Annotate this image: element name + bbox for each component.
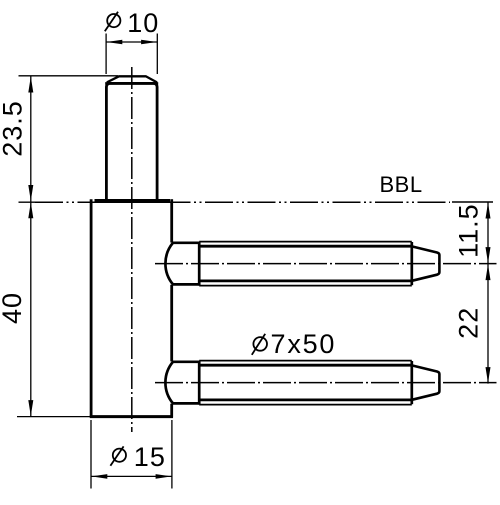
40 bottom arrow <box>28 400 33 416</box>
dia15 right extension line <box>171 420 173 489</box>
upper screw thread crest bottom (thin) <box>199 285 412 287</box>
upper screw core bottom (thick) <box>199 279 412 282</box>
svg-text:22: 22 <box>454 307 484 339</box>
body shoulder <box>95 199 171 202</box>
right dimension line (11.5 and 22) <box>487 202 489 384</box>
dia10 left extension line <box>105 34 107 75</box>
23.5 bottom arrow <box>28 185 33 201</box>
lower screw thread end line <box>410 361 413 404</box>
lower screw thread crest bottom (thin) <box>199 404 412 406</box>
upper screw collar <box>165 243 199 285</box>
left dimension line (23.5 and 40) <box>30 76 32 417</box>
dia10 dimension line <box>106 41 157 43</box>
upper screw tip <box>412 246 440 280</box>
dia15 right arrow <box>156 474 172 479</box>
BBL centerline dash-dot-dot <box>35 201 450 203</box>
BBL centerline solid lead-in <box>19 201 36 203</box>
svg-text:BBL: BBL <box>380 172 423 197</box>
upper screw thread crest top (thin) <box>199 241 412 243</box>
40 top arrow <box>28 202 33 218</box>
pin body sides with rounded top corners <box>106 83 157 200</box>
lower screw collar right edge <box>198 361 201 405</box>
dia15 diameter symbol <box>113 449 126 462</box>
22 bottom arrow <box>486 367 491 383</box>
dia7x50 diameter symbol <box>253 337 267 351</box>
lower screw collar <box>165 362 199 404</box>
dia10 right arrow <box>141 40 157 45</box>
upper screw core top (thick) <box>199 245 412 248</box>
dia10 left arrow <box>106 40 122 45</box>
svg-text:11.5: 11.5 <box>454 203 484 258</box>
dia15 dimension line <box>91 475 172 477</box>
11.5 bottom arrow <box>486 247 491 263</box>
vertical centerline of body <box>131 67 133 432</box>
dia15 left extension line <box>90 420 92 489</box>
svg-text:10: 10 <box>127 8 159 38</box>
dia10 right extension line <box>156 34 158 75</box>
lower screw core top (thick) <box>199 364 412 367</box>
upper screw thread end line <box>410 242 413 285</box>
lower screw centerline <box>155 382 497 384</box>
pin top shoulder line <box>105 82 158 85</box>
body right edge upper segment <box>170 199 173 242</box>
body left edge <box>90 199 93 417</box>
dia10 diameter symbol <box>107 14 120 27</box>
svg-text:7x50: 7x50 <box>271 329 337 359</box>
body right edge lower segment <box>170 404 173 418</box>
BBL centerline solid under body <box>90 201 173 203</box>
upper screw collar right edge <box>198 242 201 286</box>
svg-text:15: 15 <box>134 442 166 472</box>
body right edge middle segment <box>170 285 173 362</box>
lower screw tip <box>412 365 440 399</box>
11.5 top arrow <box>486 203 491 219</box>
23.5 extension line at pin top <box>19 75 119 77</box>
right extension line from BBL <box>452 201 493 203</box>
svg-text:23.5: 23.5 <box>0 100 27 157</box>
lower screw thread crest top (thin) <box>199 360 412 362</box>
pin chamfer top <box>107 76 157 82</box>
lower screw core bottom (thick) <box>199 398 412 401</box>
23.5 top arrow <box>28 77 33 93</box>
40 bottom extension line <box>17 416 90 418</box>
svg-text:40: 40 <box>0 292 27 324</box>
dia15 left arrow <box>91 474 107 479</box>
body bottom <box>90 415 173 418</box>
22 top arrow <box>486 264 491 280</box>
upper screw centerline <box>155 263 497 265</box>
